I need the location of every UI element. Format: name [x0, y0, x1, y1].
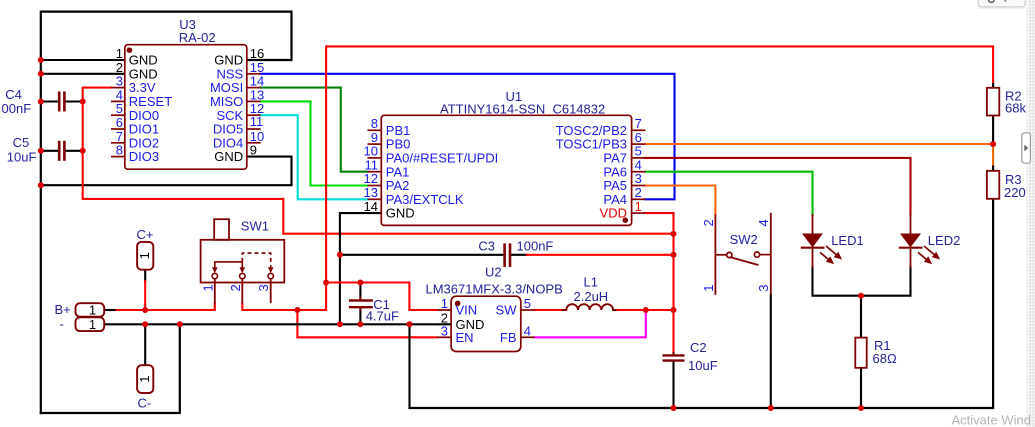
svg-text:1: 1 — [701, 285, 716, 292]
IC U3 RA-02 — [111, 17, 264, 169]
svg-text:LED1: LED1 — [831, 233, 864, 248]
svg-text:GND: GND — [214, 53, 243, 68]
svg-text:4: 4 — [756, 219, 771, 226]
svg-text:9: 9 — [371, 130, 378, 145]
svg-text:C3: C3 — [478, 239, 495, 254]
svg-text:GND: GND — [386, 206, 415, 221]
wire C+ drop (red) — [144, 270, 146, 282]
svg-text:DIO4: DIO4 — [213, 135, 243, 150]
wire SW2 pin3 to bottom rail — [770, 295, 772, 408]
wire MOSI: U3 pin14 to U1 PA1 (dark green) — [261, 88, 368, 172]
wire C1 bottom lead — [359, 309, 361, 325]
LED1 — [801, 214, 841, 268]
wire SW1 pin1 drop (red) — [214, 303, 216, 310]
wire R2 top lead (black) — [992, 84, 994, 88]
wire PA6 to LED1 (green) — [645, 172, 812, 215]
capacitor C5 — [59, 141, 64, 161]
UI scrollbar — [1022, 0, 1035, 427]
wire SW1 pin2 to supply column (red) — [242, 303, 326, 310]
svg-text:PA4: PA4 — [603, 192, 627, 207]
svg-text:5: 5 — [116, 101, 123, 116]
svg-text:1: 1 — [200, 284, 215, 291]
wire GND row battery- to U2 — [104, 323, 451, 325]
connector B+ / B- — [76, 303, 105, 333]
svg-text:8: 8 — [116, 143, 123, 158]
svg-text:L1: L1 — [584, 275, 598, 290]
wire C3 right lead (red) — [511, 254, 527, 256]
wire GND row drop to bottom rail — [408, 324, 410, 408]
svg-text:C-: C- — [138, 396, 152, 411]
svg-text:PA2: PA2 — [386, 178, 410, 193]
svg-text:1: 1 — [89, 303, 96, 318]
svg-text:3: 3 — [441, 323, 448, 338]
svg-text:10uF: 10uF — [688, 358, 718, 373]
svg-text:1: 1 — [441, 296, 448, 311]
svg-text:68k: 68k — [1005, 101, 1026, 116]
svg-text:3: 3 — [635, 171, 642, 186]
svg-text:8: 8 — [371, 116, 378, 131]
svg-text:10uF: 10uF — [7, 150, 37, 165]
svg-text:PB0: PB0 — [386, 137, 411, 152]
svg-text:EN: EN — [456, 330, 474, 345]
wire U2 SW to L1 (red) — [535, 309, 562, 311]
IC U2 LM3671MFX-3.3/NOPB — [426, 265, 563, 352]
svg-text:6: 6 — [116, 115, 123, 130]
svg-text:2: 2 — [228, 284, 243, 291]
capacitor C1 — [349, 297, 373, 312]
svg-text:1: 1 — [89, 317, 96, 332]
svg-text:C2: C2 — [690, 340, 707, 355]
UI toolbar fragment top right — [978, 0, 1025, 8]
svg-text:11: 11 — [250, 114, 263, 129]
svg-text:10: 10 — [364, 144, 378, 159]
svg-text:DIO5: DIO5 — [213, 122, 243, 137]
resistor R1 — [855, 338, 866, 368]
wire R2 bottom lead (black) — [992, 116, 994, 145]
svg-text:68Ω: 68Ω — [873, 351, 897, 366]
svg-text:DIO3: DIO3 — [129, 149, 159, 164]
wire PA7 to LED2 (dark red) — [645, 158, 910, 215]
svg-text:NSS: NSS — [216, 66, 243, 81]
svg-text:10: 10 — [250, 129, 264, 144]
svg-text:FB: FB — [500, 330, 517, 345]
svg-text:7: 7 — [635, 116, 642, 131]
capacitor C3 — [505, 243, 510, 267]
wire C1 top lead — [359, 283, 361, 300]
wire MISO: U3 pin13 to U1 PA2 (green) — [261, 101, 368, 185]
wire battery+ top rail to R2 — [326, 46, 993, 310]
svg-text:GND: GND — [214, 149, 243, 164]
svg-text:4.7uF: 4.7uF — [366, 309, 399, 324]
svg-text:C5: C5 — [13, 135, 30, 150]
wire GND loop from U3 pin9 — [41, 157, 292, 186]
wire C5 right lead — [66, 150, 83, 152]
svg-text:PA6: PA6 — [603, 164, 627, 179]
svg-text:2: 2 — [635, 185, 642, 200]
wire 3.3V net: U3 pin3 to VDD rail — [83, 88, 674, 234]
svg-text:RA-02: RA-02 — [179, 30, 216, 45]
wire VDD: U1 pin1 right and down to C2 — [645, 213, 673, 353]
svg-text:12: 12 — [364, 171, 378, 186]
svg-text:14: 14 — [250, 74, 264, 89]
wire C3 left lead (black) — [340, 254, 504, 256]
svg-text:3: 3 — [116, 74, 123, 89]
svg-text:00nF: 00nF — [2, 101, 32, 116]
svg-text:B+: B+ — [55, 302, 71, 317]
wire VIN branch (red) — [326, 283, 437, 311]
svg-text:13: 13 — [250, 87, 264, 102]
wire bottom-left rail — [41, 324, 180, 413]
connector C- — [137, 365, 154, 393]
wire C4 right lead — [66, 100, 83, 102]
svg-text:Activate Wind: Activate Wind — [952, 413, 1031, 427]
svg-text:VDD: VDD — [600, 206, 627, 221]
svg-text:PB1: PB1 — [386, 123, 411, 138]
svg-text:PA3/EXTCLK: PA3/EXTCLK — [386, 192, 464, 207]
svg-text:PA1: PA1 — [386, 164, 410, 179]
resistor R2 — [987, 88, 999, 116]
svg-text:9: 9 — [250, 143, 257, 158]
svg-text:2: 2 — [701, 219, 716, 226]
svg-text:5: 5 — [635, 144, 642, 159]
svg-text:3.3V: 3.3V — [129, 80, 156, 95]
wire EN branch (red) — [297, 310, 437, 337]
svg-text:16: 16 — [250, 46, 264, 61]
svg-text:SCK: SCK — [216, 108, 243, 123]
svg-text:1: 1 — [635, 199, 642, 214]
svg-text:-: - — [60, 317, 64, 332]
svg-text:4: 4 — [635, 157, 642, 172]
svg-text:1: 1 — [137, 252, 152, 259]
svg-text:DIO2: DIO2 — [129, 135, 159, 150]
svg-text:PA7: PA7 — [603, 151, 627, 166]
svg-text:5: 5 — [524, 296, 531, 311]
svg-text:RESET: RESET — [129, 94, 172, 109]
svg-text:PA5: PA5 — [603, 178, 627, 193]
svg-text:U2: U2 — [485, 265, 502, 280]
svg-text:3: 3 — [756, 285, 771, 292]
svg-text:TOSC1/PB3: TOSC1/PB3 — [556, 137, 627, 152]
svg-text:PA0/#RESET/UPDI: PA0/#RESET/UPDI — [386, 151, 498, 166]
wire LED cathode bus — [813, 267, 911, 296]
svg-text:13: 13 — [364, 185, 378, 200]
wire SCK: U3 pin12 to U1 PA3 (cyan) — [261, 115, 368, 199]
svg-text:TOSC2/PB2: TOSC2/PB2 — [556, 123, 627, 138]
svg-text:100nF: 100nF — [517, 239, 554, 254]
wire C- drop (black) — [144, 324, 146, 365]
capacitor C2 — [663, 352, 685, 361]
wire TOSC1/PB3 to divider tap (orange) — [645, 143, 993, 145]
svg-text:6: 6 — [635, 130, 642, 145]
svg-text:1: 1 — [137, 375, 152, 382]
svg-text:SW: SW — [496, 303, 518, 318]
svg-text:3: 3 — [256, 284, 271, 291]
svg-text:SW1: SW1 — [241, 218, 269, 233]
svg-text:11: 11 — [365, 157, 379, 172]
wire R3 top lead (black) — [992, 167, 994, 172]
wire R3 bottom to bottom rail — [410, 199, 994, 408]
wire L1 to VDD column (red) — [617, 309, 674, 311]
wire B+ stub (black) — [104, 309, 116, 311]
wire FB feedback (magenta) — [535, 310, 646, 337]
wire GND to U3 pin1 — [41, 59, 125, 61]
svg-text:GND: GND — [129, 66, 158, 81]
svg-text:1: 1 — [116, 46, 123, 61]
svg-text:14: 14 — [364, 199, 378, 214]
switch SW1 — [201, 219, 285, 303]
wire divider tap (orange) — [992, 144, 994, 167]
svg-text:GND: GND — [129, 53, 158, 68]
wire R1 bottom lead — [860, 368, 862, 408]
svg-text:ATTINY1614-SSN C614832: ATTINY1614-SSN C614832 — [440, 102, 605, 117]
svg-text:7: 7 — [116, 129, 123, 144]
svg-text:4: 4 — [524, 323, 531, 338]
svg-text:15: 15 — [250, 60, 264, 75]
wire B+ row to SW1 pin1 (red) — [117, 309, 215, 311]
svg-text:DIO1: DIO1 — [129, 122, 159, 137]
LED2 — [899, 214, 939, 268]
connector C+ — [137, 242, 154, 270]
svg-text:C4: C4 — [5, 87, 22, 102]
inductor L1 — [562, 304, 617, 310]
wire U1 GND pin14 down to GND row — [340, 213, 381, 324]
svg-text:MISO: MISO — [210, 94, 243, 109]
svg-text:2.2uH: 2.2uH — [574, 289, 609, 304]
svg-text:MOSI: MOSI — [210, 80, 243, 95]
svg-text:2: 2 — [116, 60, 123, 75]
wire GND to U3 pin2 — [41, 73, 125, 75]
svg-text:SW2: SW2 — [730, 232, 758, 247]
wire NSS: U3 pin15 to U1 PA4 (blue) — [261, 74, 675, 200]
wire C2 bottom lead — [672, 362, 674, 408]
svg-text:C+: C+ — [137, 227, 154, 242]
wire C4 left lead — [41, 100, 58, 102]
capacitor C4 — [59, 92, 64, 112]
wire GND: U3 pin16 loop over top to left rail, down to bottom-left rail — [41, 12, 292, 413]
svg-text:DIO0: DIO0 — [129, 108, 159, 123]
resistor R3 — [987, 171, 999, 199]
svg-text:VIN: VIN — [456, 303, 478, 318]
wire PA5 to SW2 pin2 (orange) — [645, 186, 715, 215]
wire R1 top lead — [860, 296, 862, 338]
wire C5 left lead — [41, 150, 58, 152]
IC U1 ATTINY1614-SSN — [364, 89, 646, 225]
svg-text:LM3671MFX-3.3/NOPB: LM3671MFX-3.3/NOPB — [426, 282, 563, 297]
svg-text:LED2: LED2 — [928, 233, 961, 248]
switch SW2 — [715, 213, 770, 295]
svg-text:4: 4 — [116, 87, 123, 102]
